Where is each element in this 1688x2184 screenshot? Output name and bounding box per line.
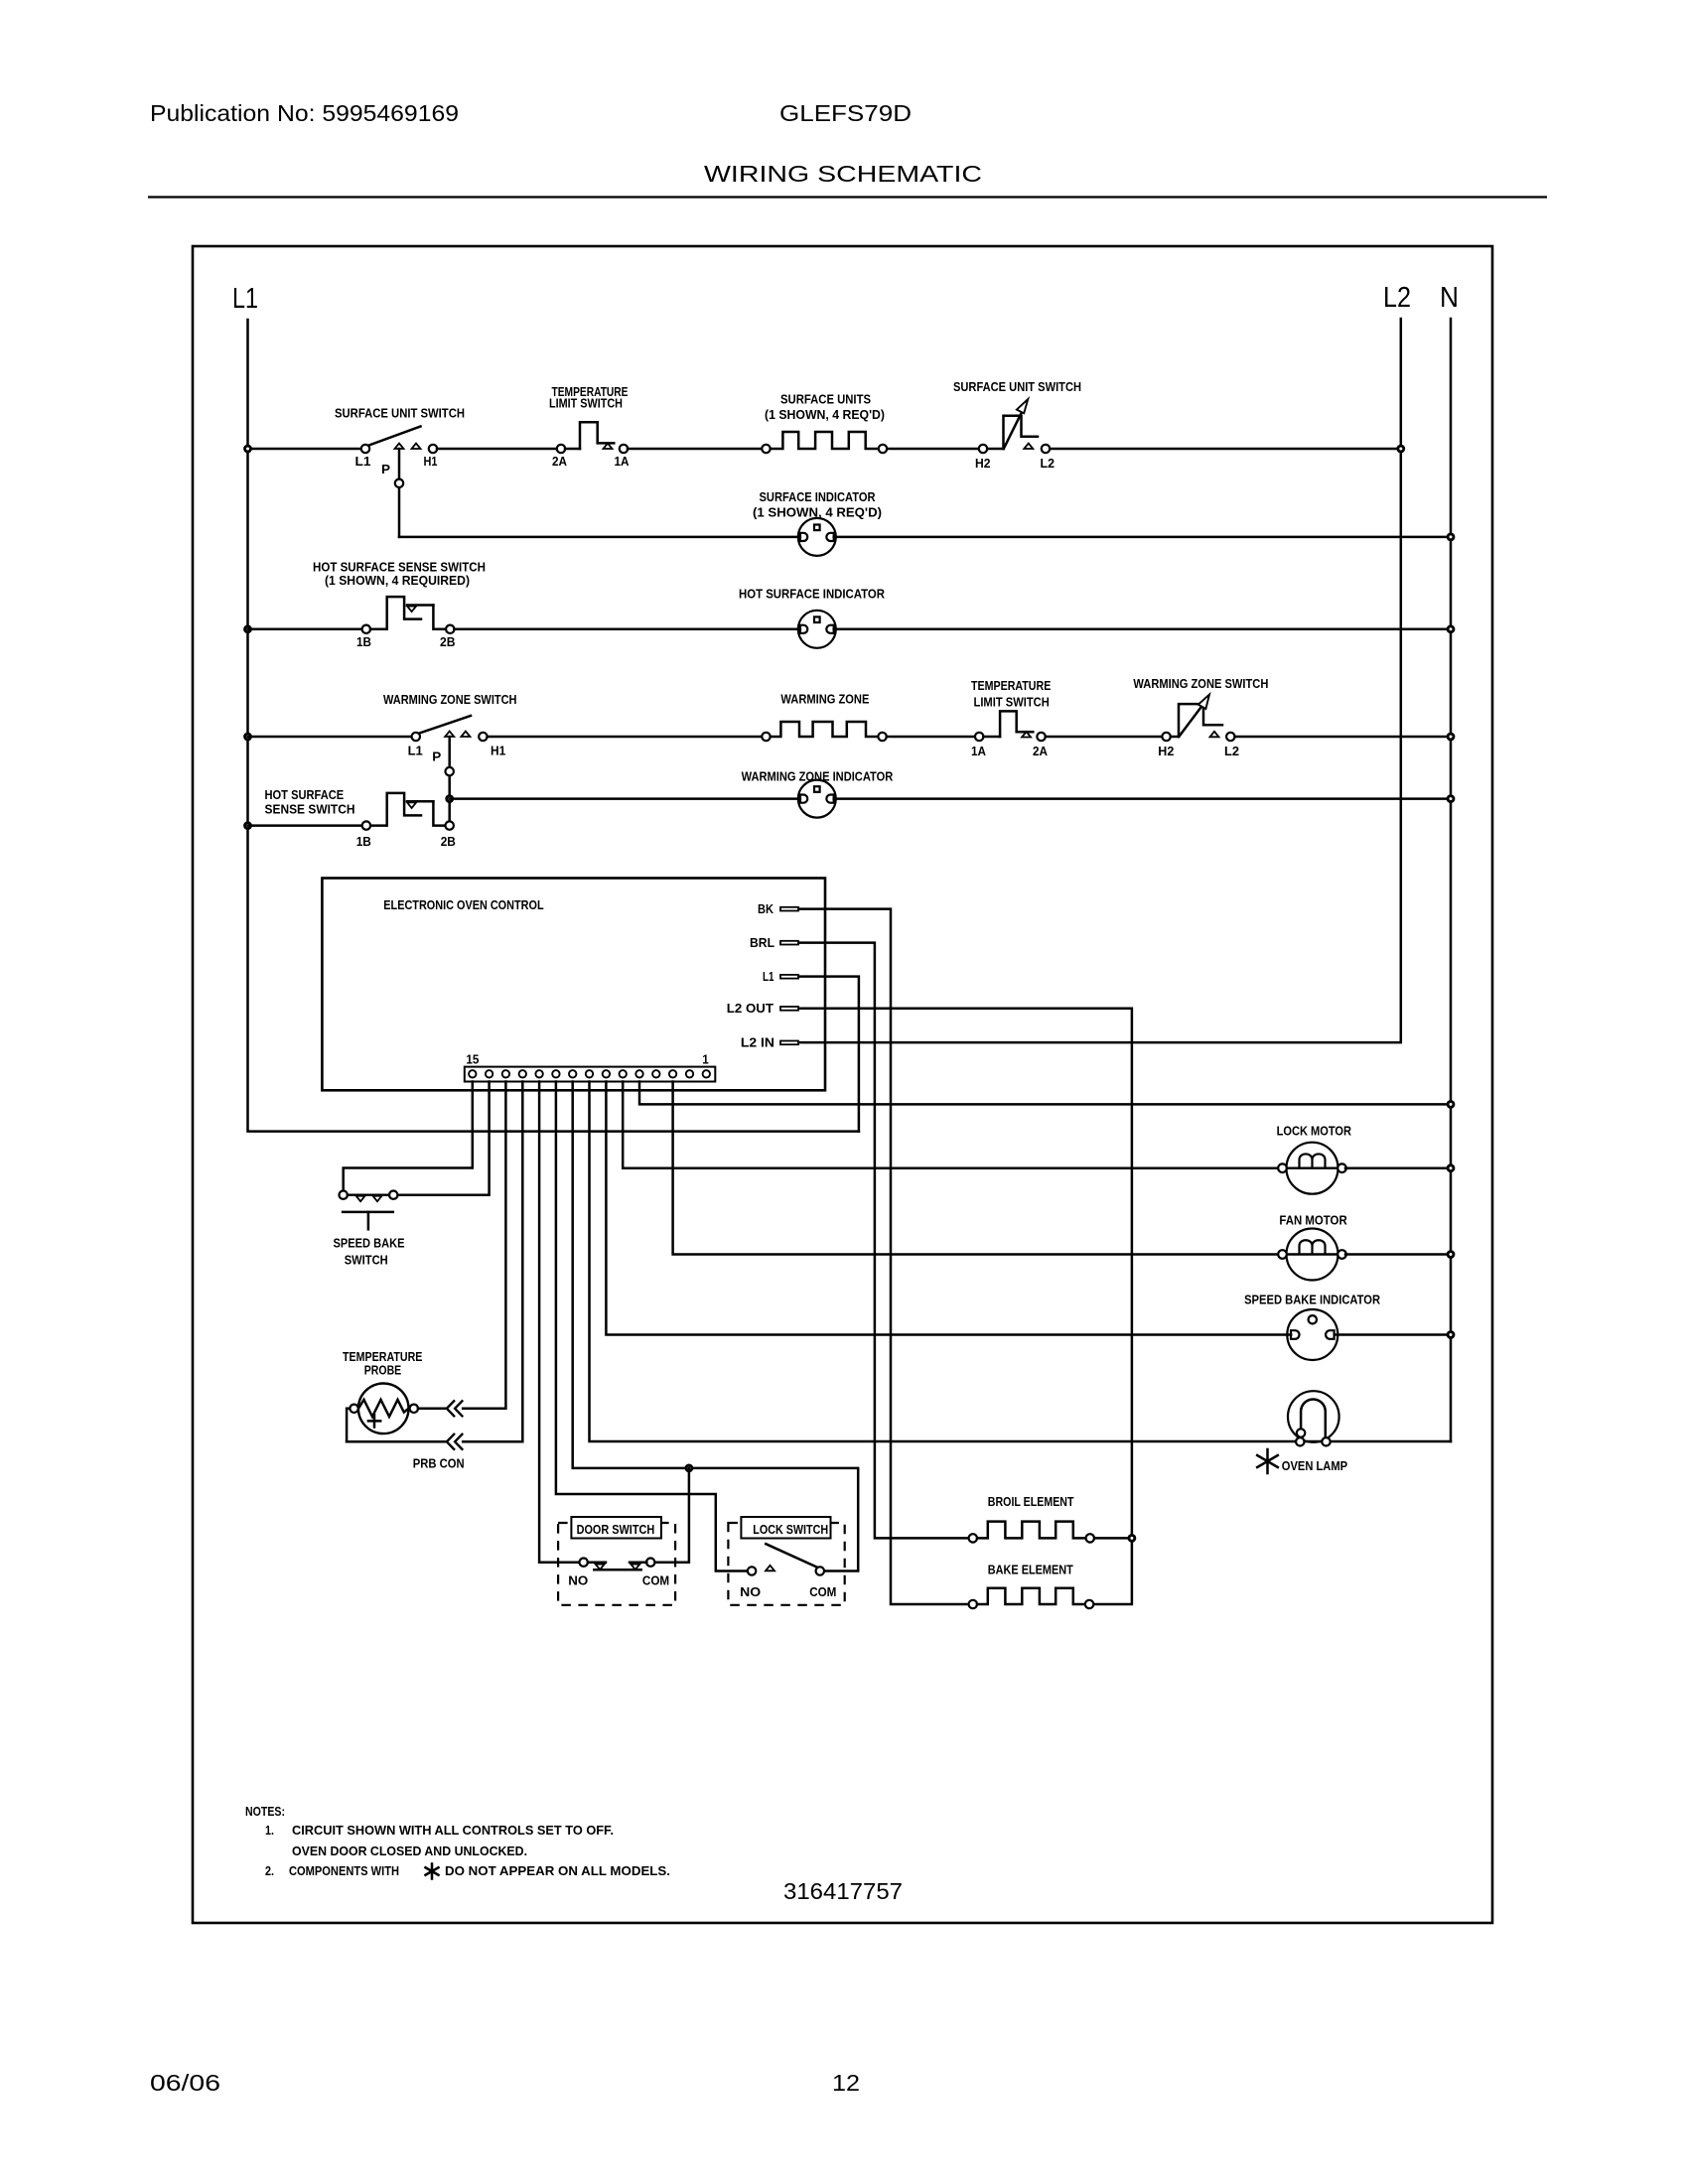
- svg-text:(1 SHOWN, 4 REQUIRED): (1 SHOWN, 4 REQUIRED): [325, 573, 470, 588]
- svg-text:DOOR SWITCH: DOOR SWITCH: [577, 1522, 655, 1537]
- wire door COM drop: [654, 1468, 689, 1563]
- wire BRL to broil element: [799, 943, 969, 1539]
- wire P drop row3: [448, 737, 451, 821]
- svg-text:1A: 1A: [615, 454, 631, 469]
- svg-text:2B: 2B: [440, 634, 456, 649]
- svg-text:BAKE ELEMENT: BAKE ELEMENT: [988, 1563, 1073, 1577]
- svg-text:H2: H2: [1158, 744, 1174, 758]
- junction P / indicator line: [445, 794, 454, 803]
- svg-text:LIMIT SWITCH: LIMIT SWITCH: [549, 396, 623, 411]
- svg-text:06/06: 06/06: [150, 2070, 220, 2096]
- pin circles 15..1: [469, 1070, 476, 1077]
- wire row4 left: [248, 824, 363, 827]
- junction L2 bus row1: [1396, 445, 1405, 454]
- wire row1 to temp limit switch: [437, 448, 557, 451]
- svg-text:WARMING ZONE SWITCH: WARMING ZONE SWITCH: [383, 692, 517, 707]
- svg-text:NO: NO: [740, 1584, 761, 1599]
- svg-text:HOT SURFACE: HOT SURFACE: [265, 787, 345, 802]
- wire L1 pin to L1 return: [799, 977, 859, 1132]
- svg-text:2A: 2A: [1033, 744, 1049, 758]
- wire pin6 to lock motor: [623, 1082, 1278, 1168]
- svg-text:OVEN DOOR CLOSED AND UNLOCKED.: OVEN DOOR CLOSED AND UNLOCKED.: [292, 1843, 527, 1858]
- svg-text:PROBE: PROBE: [364, 1363, 402, 1378]
- svg-text:P: P: [432, 750, 441, 764]
- svg-text:LOCK MOTOR: LOCK MOTOR: [1277, 1124, 1352, 1139]
- svg-text:1.: 1.: [265, 1823, 274, 1838]
- wire row2 left: [248, 628, 363, 631]
- svg-text:CIRCUIT SHOWN WITH ALL CONTROL: CIRCUIT SHOWN WITH ALL CONTROLS SET TO O…: [292, 1823, 614, 1838]
- svg-text:Publication No: 5995469169: Publication No: 5995469169: [150, 100, 459, 126]
- svg-text:WARMING ZONE: WARMING ZONE: [780, 692, 869, 707]
- junction broil/bake L2 OUT: [1128, 1534, 1137, 1543]
- svg-text:SURFACE UNITS: SURFACE UNITS: [780, 392, 871, 407]
- svg-text:L1: L1: [763, 969, 774, 984]
- EOC box: [322, 879, 825, 1091]
- wire row3 to N bus: [1235, 736, 1452, 739]
- svg-text:SURFACE UNIT SWITCH: SURFACE UNIT SWITCH: [953, 379, 1081, 394]
- svg-text:PRB CON: PRB CON: [413, 1456, 465, 1471]
- svg-text:SPEED BAKE INDICATOR: SPEED BAKE INDICATOR: [1244, 1293, 1381, 1307]
- wire pin8 to oven lamp line: [590, 1082, 1452, 1442]
- svg-text:GLEFS79D: GLEFS79D: [779, 100, 912, 126]
- svg-text:SENSE SWITCH: SENSE SWITCH: [265, 802, 355, 817]
- svg-text:2B: 2B: [441, 834, 456, 849]
- svg-text:2.: 2.: [265, 1863, 274, 1878]
- svg-text:N: N: [1440, 282, 1459, 314]
- svg-text:FAN MOTOR: FAN MOTOR: [1279, 1213, 1347, 1228]
- svg-text:1B: 1B: [356, 834, 371, 849]
- svg-text:H1: H1: [424, 454, 438, 469]
- junction N bus lock motor: [1447, 1163, 1456, 1172]
- junction L1 bus row1: [243, 445, 252, 454]
- svg-text:(1 SHOWN, 4 REQ'D): (1 SHOWN, 4 REQ'D): [765, 407, 885, 422]
- wire P drop from row1 switch: [398, 449, 401, 537]
- svg-text:WARMING ZONE INDICATOR: WARMING ZONE INDICATOR: [742, 769, 894, 784]
- svg-text:H1: H1: [491, 744, 505, 758]
- hot surface sense switch: [362, 625, 370, 633]
- svg-text:COM: COM: [809, 1584, 836, 1599]
- junction N bus pin5 line: [1447, 1100, 1456, 1109]
- wire L2 bus vertical to L2 IN pin: [800, 319, 1401, 1042]
- svg-text:SURFACE INDICATOR: SURFACE INDICATOR: [760, 489, 877, 504]
- svg-text:1A: 1A: [971, 744, 987, 758]
- svg-text:P: P: [381, 462, 390, 477]
- svg-text:1: 1: [702, 1052, 709, 1067]
- PRB CON connector chevrons: [447, 1400, 463, 1417]
- svg-text:BROIL ELEMENT: BROIL ELEMENT: [988, 1494, 1074, 1509]
- svg-text:316417757: 316417757: [783, 1878, 903, 1904]
- wire N bus vertical to oven lamp line: [1450, 319, 1453, 1441]
- svg-text:L2: L2: [1041, 456, 1055, 471]
- svg-text:WIRING SCHEMATIC: WIRING SCHEMATIC: [704, 161, 982, 187]
- junction N bus warming indicator: [1447, 794, 1456, 803]
- junction L1 bus row2: [243, 624, 252, 633]
- svg-text:COM: COM: [642, 1573, 669, 1588]
- svg-text:HOT SURFACE INDICATOR: HOT SURFACE INDICATOR: [739, 587, 886, 602]
- svg-text:BK: BK: [758, 901, 774, 916]
- schematic outer border: [193, 246, 1492, 1923]
- svg-text:L1: L1: [232, 283, 258, 315]
- svg-text:SWITCH: SWITCH: [345, 1253, 388, 1268]
- junction L1 bus row4: [243, 821, 252, 830]
- probe resistor zigzag: [358, 1400, 409, 1417]
- svg-text:15: 15: [466, 1052, 479, 1067]
- svg-text:L2: L2: [1224, 744, 1239, 758]
- wire row1 left segment: [248, 448, 363, 451]
- junction L1 bus row3: [243, 733, 252, 742]
- svg-text:L1: L1: [408, 744, 423, 758]
- svg-text:L1: L1: [355, 454, 371, 469]
- wire warming indicator line: [450, 797, 800, 800]
- wire row1 to surface units: [628, 448, 763, 451]
- wire row2 to indicator and N: [455, 628, 800, 631]
- wire pin14 to speed bake switch: [398, 1082, 490, 1195]
- svg-text:COMPONENTS WITH: COMPONENTS WITH: [289, 1863, 399, 1878]
- svg-text:SURFACE UNIT SWITCH: SURFACE UNIT SWITCH: [335, 406, 465, 421]
- wire row3 left: [248, 736, 413, 739]
- svg-text:NO: NO: [568, 1573, 588, 1588]
- svg-text:OVEN LAMP: OVEN LAMP: [1282, 1458, 1348, 1473]
- svg-text:TEMPERATURE: TEMPERATURE: [971, 678, 1052, 693]
- junction door COM branch: [685, 1464, 694, 1473]
- svg-text:L2: L2: [1383, 282, 1411, 314]
- wire pin3 to fan motor: [673, 1082, 1279, 1255]
- svg-text:L2 OUT: L2 OUT: [727, 1001, 774, 1016]
- svg-text:ELECTRONIC OVEN CONTROL: ELECTRONIC OVEN CONTROL: [383, 897, 543, 912]
- wire BK to bake element: [799, 909, 969, 1604]
- svg-text:H2: H2: [975, 456, 991, 471]
- wire row1 to right switch: [887, 448, 979, 451]
- wire L2 OUT to elements junction: [799, 1009, 1132, 1604]
- wire probe left to pin12 line: [347, 1409, 350, 1442]
- wire surface indicator line: [399, 536, 800, 539]
- wire pin13 to probe connector: [463, 1082, 505, 1409]
- svg-text:1B: 1B: [356, 634, 371, 649]
- wire pin7 to speed bake indicator: [606, 1082, 1291, 1335]
- hot surface sense switch 2: [362, 821, 370, 829]
- junction N bus row3: [1447, 733, 1456, 742]
- wire pin12 to probe connector low: [463, 1082, 522, 1442]
- svg-text:BRL: BRL: [750, 935, 774, 950]
- svg-text:WARMING ZONE SWITCH: WARMING ZONE SWITCH: [1133, 676, 1268, 691]
- svg-text:SPEED BAKE: SPEED BAKE: [334, 1236, 405, 1251]
- svg-text:NOTES:: NOTES:: [245, 1804, 285, 1819]
- wire row3 to right switch: [1046, 736, 1163, 739]
- wire row3 to temp limit switch: [887, 736, 975, 739]
- junction N bus surface indicator: [1447, 533, 1456, 542]
- junction N bus fan motor: [1447, 1250, 1456, 1259]
- wire pin5 to N bus: [639, 1082, 1451, 1105]
- wire probe right to chevron: [418, 1408, 447, 1411]
- svg-text:12: 12: [832, 2070, 860, 2096]
- asterisk mark: [1257, 1449, 1278, 1473]
- junction N bus row2: [1447, 624, 1456, 633]
- svg-text:LOCK SWITCH: LOCK SWITCH: [753, 1522, 828, 1537]
- wire pin15 to speed bake switch: [344, 1082, 473, 1191]
- junction N bus speed bake indicator: [1447, 1330, 1456, 1339]
- svg-text:DO NOT APPEAR ON ALL MODELS.: DO NOT APPEAR ON ALL MODELS.: [445, 1863, 670, 1878]
- wire pin10 to lock switch NO: [556, 1082, 748, 1571]
- wire row3 to warming element: [488, 736, 763, 739]
- svg-text:L2 IN: L2 IN: [741, 1035, 774, 1050]
- wire pin9 to door COM / lock COM: [573, 1082, 859, 1571]
- svg-text:LIMIT SWITCH: LIMIT SWITCH: [974, 695, 1050, 710]
- wire pin11 to door switch NO: [539, 1082, 579, 1563]
- svg-text:2A: 2A: [552, 454, 568, 469]
- wire row1 to L2 bus: [1050, 448, 1401, 451]
- wire L1 bus vertical and return: [248, 320, 859, 1132]
